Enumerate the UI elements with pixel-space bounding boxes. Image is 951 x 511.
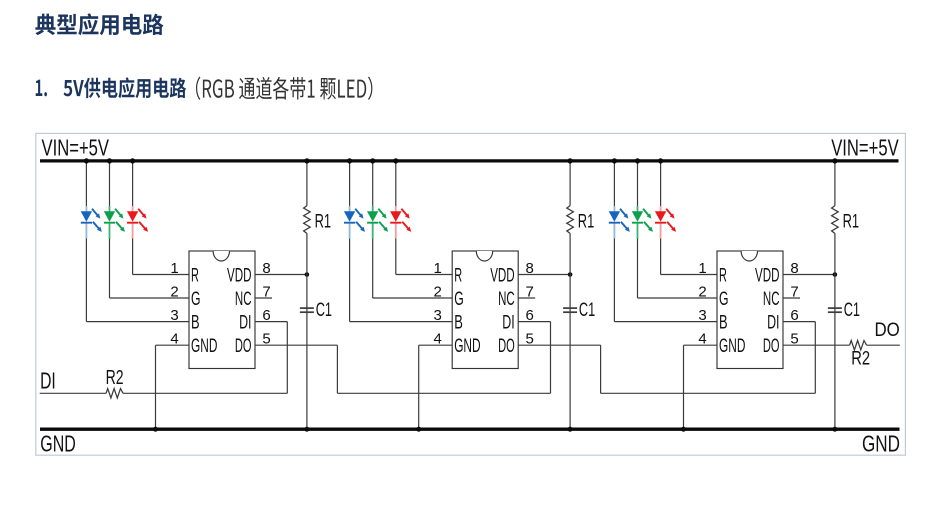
wire U1 GND pin 4 to GND rail — [153, 345, 189, 432]
svg-text:3: 3 — [698, 307, 706, 324]
wire VIN to LED blue (stage 2) — [347, 158, 352, 206]
svg-text:C1: C1 — [844, 300, 860, 321]
GND rail — [40, 428, 900, 431]
svg-text:GND: GND — [40, 430, 76, 456]
svg-text:B: B — [191, 312, 200, 333]
LED green (stage 1) — [104, 206, 125, 239]
svg-text:DI: DI — [767, 312, 779, 333]
net label VIN=+5V (right) — [831, 135, 899, 161]
svg-text:1: 1 — [170, 260, 178, 277]
VIN +5V power rail — [40, 159, 899, 162]
resistor R2 (input series) — [106, 367, 124, 398]
svg-text:G: G — [191, 289, 201, 310]
subtitle 5V供电应用电路 — [64, 77, 187, 98]
svg-text:3: 3 — [170, 307, 178, 324]
wire LED red cathode to U1 pin 1 (stage 1) — [133, 239, 189, 275]
resistor R1 (stage 2) — [567, 158, 595, 274]
svg-text:R2: R2 — [106, 367, 124, 389]
svg-text:R: R — [454, 265, 462, 286]
wire U2 DO pin 5 to U3 DI (daisy chain) — [518, 345, 815, 393]
LED blue (stage 1) — [81, 206, 102, 239]
IC U1 LED-driver (stage 1) — [189, 251, 255, 369]
wire VIN to LED green (stage 3) — [635, 158, 640, 206]
svg-text:NC: NC — [235, 289, 252, 310]
NC pin 7 stub of U2 — [518, 297, 535, 299]
svg-text:GND: GND — [862, 431, 900, 457]
svg-text:DO: DO — [875, 319, 900, 341]
svg-text:NC: NC — [763, 289, 780, 310]
wire U3 VDD pin 8 to R1/C1 node — [783, 272, 837, 277]
svg-text:NC: NC — [498, 289, 515, 310]
capacitor C1 (stage 3) — [828, 275, 860, 432]
pin numbers 8-5 of U3 — [790, 260, 798, 348]
wire LED red cathode to U2 pin 1 (stage 2) — [396, 239, 452, 275]
wire to U3 DI pin 6 — [783, 322, 815, 394]
port label DO — [875, 319, 900, 341]
wire to U2 DI pin 6 — [518, 322, 550, 394]
wire LED green cathode to U3 pin 2 (stage 3) — [638, 239, 718, 298]
wire LED blue cathode to U3 pin 3 (stage 3) — [614, 239, 717, 322]
subtitle number 1. — [36, 80, 47, 97]
schematic frame — [36, 133, 906, 455]
wire VIN to LED green (stage 2) — [370, 158, 375, 206]
svg-text:R2: R2 — [851, 349, 870, 370]
svg-text:R1: R1 — [843, 212, 860, 233]
svg-text:2: 2 — [170, 283, 178, 300]
subtitle （RGB 通道各带1 颗LED） — [196, 77, 372, 100]
LED blue (stage 3) — [609, 206, 630, 239]
wire VIN to LED red (stage 3) — [658, 158, 663, 206]
LED blue (stage 2) — [344, 206, 365, 239]
net label GND (bottom right) — [862, 431, 900, 457]
resistor R2 (output series) — [850, 341, 871, 370]
wire LED green cathode to U2 pin 2 (stage 2) — [373, 239, 453, 298]
LED red (stage 3) — [655, 206, 676, 239]
LED green (stage 3) — [632, 206, 653, 239]
svg-text:G: G — [719, 289, 729, 310]
svg-text:GND: GND — [191, 336, 217, 357]
svg-text:1: 1 — [434, 260, 442, 277]
wire VIN to LED blue (stage 1) — [84, 158, 89, 206]
wire R2 to DO port — [867, 344, 900, 346]
page title 典型应用电路 — [35, 13, 163, 35]
IC U2 LED-driver (stage 2) — [452, 251, 518, 369]
wire U2 VDD pin 8 to R1/C1 node — [518, 272, 572, 277]
wire U3 DO pin 5 to output R2 — [783, 344, 850, 346]
capacitor C1 (stage 1) — [300, 275, 332, 432]
wire VIN to LED red (stage 2) — [393, 158, 398, 206]
svg-text:R: R — [719, 265, 727, 286]
svg-text:3: 3 — [434, 307, 442, 324]
svg-text:VIN=+5V: VIN=+5V — [42, 135, 110, 161]
svg-text:GND: GND — [454, 336, 480, 357]
svg-text:1: 1 — [698, 260, 706, 277]
svg-text:2: 2 — [698, 283, 706, 300]
pin numbers 1-4 of U1 — [170, 260, 178, 348]
svg-text:DO: DO — [498, 336, 515, 357]
svg-text:DO: DO — [763, 336, 780, 357]
svg-text:C1: C1 — [316, 300, 332, 321]
svg-text:2: 2 — [434, 283, 442, 300]
pin numbers 8-5 of U2 — [526, 260, 534, 348]
wire VIN to LED green (stage 1) — [107, 158, 112, 206]
svg-text:DI: DI — [239, 312, 251, 333]
resistor R1 (stage 3) — [832, 158, 860, 274]
NC pin 7 stub of U1 — [255, 297, 272, 299]
wire R2 to U1 DI — [123, 392, 287, 394]
wire VIN to LED blue (stage 3) — [612, 158, 617, 206]
IC U3 LED-driver (stage 3) — [717, 251, 783, 369]
wire U3 GND pin 4 to GND rail — [681, 345, 717, 432]
wire to U1 DI pin 6 — [255, 322, 287, 394]
svg-text:VIN=+5V: VIN=+5V — [831, 135, 899, 161]
svg-text:GND: GND — [719, 336, 745, 357]
LED green (stage 2) — [367, 206, 388, 239]
svg-text:DI: DI — [40, 368, 56, 394]
svg-text:B: B — [454, 312, 463, 333]
svg-text:C1: C1 — [579, 300, 595, 321]
svg-text:VDD: VDD — [755, 265, 780, 286]
wire LED blue cathode to U2 pin 3 (stage 2) — [350, 239, 453, 322]
wire U1 DO pin 5 to U2 DI (daisy chain) — [255, 345, 551, 393]
capacitor C1 (stage 2) — [563, 275, 595, 432]
net label VIN=+5V (left) — [42, 135, 110, 161]
svg-text:DO: DO — [235, 336, 252, 357]
pin numbers 8-5 of U1 — [262, 260, 270, 348]
svg-text:R: R — [191, 265, 199, 286]
port label DI — [40, 368, 56, 394]
wire U1 VDD pin 8 to R1/C1 node — [255, 272, 309, 277]
resistor R1 (stage 1) — [304, 158, 332, 274]
svg-text:VDD: VDD — [490, 265, 515, 286]
pin numbers 1-4 of U3 — [698, 260, 706, 348]
wire LED red cathode to U3 pin 1 (stage 3) — [661, 239, 717, 275]
svg-text:DI: DI — [502, 312, 514, 333]
svg-text:R1: R1 — [578, 212, 595, 233]
wire U2 GND pin 4 to GND rail — [416, 345, 452, 432]
net label GND (bottom left) — [40, 430, 76, 456]
NC pin 7 stub of U3 — [783, 297, 800, 299]
wire VIN to LED red (stage 1) — [130, 158, 135, 206]
wire LED green cathode to U1 pin 2 (stage 1) — [110, 239, 190, 298]
wire DI input to R2 — [40, 392, 106, 394]
wire LED blue cathode to U1 pin 3 (stage 1) — [86, 239, 189, 322]
svg-text:R1: R1 — [315, 212, 332, 233]
svg-text:VDD: VDD — [227, 265, 252, 286]
LED red (stage 1) — [127, 206, 148, 239]
svg-text:B: B — [719, 312, 728, 333]
svg-text:G: G — [454, 289, 464, 310]
LED red (stage 2) — [390, 206, 411, 239]
pin numbers 1-4 of U2 — [434, 260, 442, 348]
